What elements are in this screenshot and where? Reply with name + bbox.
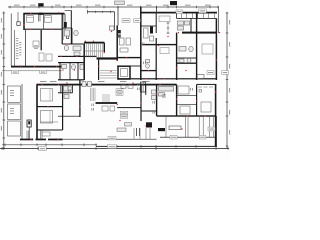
- UR wc fixtures: [146, 60, 150, 69]
- LL bottom window drops: [27, 131, 42, 139]
- right dimension ticks: [226, 13, 229, 147]
- UL bed 2 pillow line: [45, 16, 52, 18]
- UL rotated room text col2: [19, 42, 21, 55]
- bottom dim1 ticks: [5, 144, 97, 147]
- terrace edge y10.5: [65, 9, 72, 12]
- left balcony 1: [8, 86, 21, 102]
- UR wall y66.5 left: [117, 65, 141, 68]
- LR right border x216.5: [215, 116, 218, 146]
- LL thin y116: [58, 115, 80, 118]
- left dimension tiny text: [0, 18, 3, 131]
- UR kitchen small marks: [144, 28, 154, 41]
- UR drop x118: [117, 7, 120, 26]
- UL rotated room text col1: [16, 38, 19, 59]
- UR drop x156: [155, 7, 158, 13]
- UL shaft black blob: [64, 22, 67, 27]
- UR wall x176.5: [176, 33, 177, 80]
- UL living wall x41: [41, 30, 42, 50]
- LL top wall: [37, 84, 118, 86]
- LR label left edge 2: [116, 92, 123, 95]
- LL bath fixtures: [64, 86, 73, 99]
- LR text col x153 b: [153, 111, 156, 114]
- UL left thin wall lower: [24, 30, 27, 66]
- UR kitchen wall x156: [156, 13, 157, 33]
- UR y44.5 red: [158, 45, 159, 46]
- UR dim x168 ticks: [167, 23, 170, 34]
- UR y32.5 red right: [219, 32, 220, 33]
- LR kitchen text: [162, 95, 166, 98]
- UR y70.5 red: [148, 70, 149, 71]
- LR red y120 a: [119, 120, 120, 121]
- corridor door red 3: [83, 58, 84, 59]
- UL top wall red right: [58, 12, 59, 13]
- UR dim x168: [167, 22, 169, 34]
- left edge line x22: [21, 84, 24, 139]
- right dimension tiny text: [228, 20, 231, 135]
- bottom dim label 16.90: [39, 147, 47, 151]
- terrace rail ticks: [181, 13, 215, 18]
- UR kitchen-living wall x191: [191, 18, 192, 32]
- UR column blobs x118: [118, 30, 121, 38]
- right label 1: [207, 71, 214, 75]
- UR kitchen counter: [178, 21, 190, 30]
- LL left wall x37: [36, 85, 38, 140]
- landing treads horizontal: [100, 71, 117, 79]
- UR wall y70.5: [141, 70, 156, 71]
- LL strong wall x80: [79, 80, 80, 117]
- stair mid line: [85, 50, 105, 53]
- LR red x214: [215, 91, 216, 92]
- mid-bottom label box 2: [125, 123, 132, 126]
- UL unit top wall: [24, 13, 65, 15]
- LR text col x153: [153, 101, 156, 104]
- core top wall: [84, 42, 104, 44]
- UR y32.5 red left: [178, 32, 179, 33]
- ML divider x70: [69, 63, 72, 80]
- core west wall lower: [83, 44, 85, 80]
- terrace rail y18.5: [177, 17, 217, 20]
- UL bed 1 pillow line: [27, 16, 34, 18]
- terrace red dot: [111, 31, 112, 32]
- UL interior wall y29: [25, 29, 63, 30]
- UL room divider: [42, 14, 45, 29]
- UR wc text col: [143, 62, 146, 65]
- top black label box: [38, 3, 43, 6]
- core top red 2: [93, 41, 94, 42]
- mid wall pair b: [138, 128, 141, 136]
- LR balcony label 2: [199, 135, 206, 139]
- LL thin line y122: [40, 121, 58, 124]
- top dimension line: [8, 6, 219, 9]
- LL divider x62.5: [62, 85, 63, 130]
- core inner red: [98, 66, 99, 67]
- terrace object: [110, 26, 115, 30]
- UR wall y57.5 left: [117, 57, 141, 58]
- ML fixtures: [62, 64, 84, 69]
- bottom dim3 ticks: [2, 147, 229, 150]
- ML right wall x78: [78, 63, 79, 80]
- LL shower hatch: [91, 88, 96, 101]
- corridor door red 1: [60, 56, 61, 57]
- UL bed 2: [45, 16, 52, 23]
- ML top wall y62.5: [58, 62, 84, 63]
- core east red: [104, 52, 105, 53]
- UL wall x62: [62, 14, 63, 44]
- bathroom fixtures upper: [64, 30, 81, 56]
- UL below-wall dim line: [2, 70, 62, 73]
- bath divider x72 upper: [71, 28, 74, 44]
- LR top wall ext: [117, 84, 177, 86]
- left balcony text: [10, 90, 14, 96]
- LR wall x156.5: [156, 85, 157, 116]
- UR right wall red: [216, 59, 217, 60]
- UL bottom wall red 3: [56, 66, 57, 67]
- balcony rail x11: [10, 14, 13, 67]
- left balcony 2: [8, 104, 21, 120]
- core inner wall x98.5: [98, 60, 99, 80]
- LL bath wall pair x60.8: [60, 85, 62, 93]
- LR wall x176.5: [176, 85, 177, 116]
- LL bath right x72.5: [71, 85, 74, 93]
- UR bath wall y63 right: [177, 63, 197, 64]
- LR thin y95.5: [177, 94, 197, 97]
- UR left wall red: [117, 60, 118, 61]
- UL dim line x63.7: [62, 14, 64, 40]
- UR wall x196.5: [196, 13, 197, 80]
- LR x141 red: [140, 102, 141, 103]
- LL fixtures right of x80: [82, 82, 92, 87]
- LR top red 2: [159, 84, 160, 85]
- shaft box: [17, 22, 20, 26]
- core east wall: [104, 43, 105, 52]
- LL top red 1: [41, 84, 42, 85]
- UR room label 2: [134, 19, 141, 23]
- UR heavy wall y32.5: [182, 32, 217, 34]
- top dimension tiny text: [14, 4, 211, 7]
- LL text col1: [69, 90, 72, 93]
- LR bottom wall y116: [157, 115, 216, 116]
- corridor door red 2: [76, 56, 77, 57]
- LR text col x190: [190, 88, 193, 91]
- UL bottom wall red 2: [34, 66, 35, 67]
- LL lower room marks: [102, 106, 115, 111]
- shaft line x18: [17, 12, 20, 22]
- terrace rail left x176.5: [175, 13, 178, 18]
- UR bath fixtures: [179, 46, 193, 63]
- UR wall y44.5: [142, 44, 177, 45]
- LL bottom wall seg 2: [36, 139, 47, 141]
- UL bottom wall red 1: [20, 65, 21, 66]
- bath door red: [66, 43, 67, 44]
- UL dim label left: [12, 70, 19, 73]
- top dimension ticks: [10, 6, 219, 9]
- LR red x118: [117, 104, 118, 105]
- UL window line right: [87, 10, 115, 13]
- LR label left edge: [116, 89, 123, 92]
- UR room text col: [142, 43, 145, 46]
- UR left wall x117: [116, 26, 118, 62]
- LL x80 red: [79, 106, 80, 107]
- UR bottom red 1: [145, 78, 146, 79]
- LR thin y104.5: [177, 103, 197, 106]
- LR fixtures col x152: [152, 90, 157, 100]
- UL left wall door: [23, 24, 24, 25]
- UR room fixtures x118-138: [120, 38, 131, 52]
- UL window subdivision ticks: [87, 10, 110, 14]
- elevator shaft: [118, 66, 130, 79]
- UR bath wall y58 right: [177, 57, 197, 60]
- LR wall x145.8: [144, 85, 147, 95]
- LL bed 1 pillow: [49, 89, 51, 101]
- LL top red 4: [90, 82, 91, 83]
- UR x176.5 red: [176, 67, 177, 68]
- LR red x196: [196, 100, 197, 101]
- UL bed 1: [27, 16, 34, 23]
- LR balcony red: [181, 128, 182, 129]
- UR small wall y26: [141, 25, 156, 28]
- LR text col x137 b: [137, 88, 140, 91]
- stair treads lower flight: [87, 52, 103, 58]
- LL corridor furniture: [42, 132, 50, 136]
- LR top wall windows right: [197, 84, 217, 85]
- core landing red: [110, 71, 111, 72]
- LL rooms bottom y130: [37, 130, 63, 131]
- mid label y138: [108, 137, 116, 140]
- UL shaft black blob 2: [66, 30, 68, 34]
- LL y106.5 red: [47, 106, 48, 107]
- LR wall x196.5: [196, 85, 197, 116]
- top-right gray label box: [115, 1, 125, 5]
- LR red x158: [156, 93, 157, 94]
- LL above-wall tiny text: [40, 80, 105, 83]
- bath upper top y28: [62, 27, 72, 30]
- LR wall x141: [140, 85, 141, 121]
- bottom dim label mid: [108, 145, 117, 149]
- LR hatch box: [141, 82, 146, 92]
- LR corridor label 2: [120, 115, 128, 118]
- LR balcony verticals: [166, 117, 213, 137]
- mid-bottom black marks: [146, 122, 152, 127]
- bottom dim2 ticks: [117, 145, 217, 148]
- LR right wall x215.5: [215, 85, 217, 147]
- left dimension line: [2, 12, 5, 151]
- LL bottom red 2: [57, 139, 58, 140]
- LL bath bottom y92.8: [58, 92, 73, 93]
- UR red x168: [167, 36, 168, 37]
- LL text col3: [92, 108, 95, 111]
- LL bed 2 pillow: [49, 111, 51, 123]
- small shaft blob: [28, 121, 30, 124]
- LL bed 2: [41, 111, 53, 124]
- LL heavy wall y103: [96, 102, 118, 104]
- LR balcony rail y137.2: [160, 136, 216, 139]
- UR bath red: [185, 70, 186, 71]
- corridor wall y56.5: [58, 56, 97, 57]
- UL living bottom wall: [11, 66, 63, 68]
- LR hatch lines: [142, 83, 144, 92]
- UR unit bottom wall: [117, 78, 216, 79]
- balcony inner x14.5: [13, 30, 16, 66]
- LL top red 3: [66, 82, 67, 83]
- UR y57.5 red: [126, 57, 127, 58]
- plan right edge x218.5: [217, 7, 220, 33]
- LR balcony label 1: [170, 135, 177, 139]
- UR label box 2: [199, 9, 207, 13]
- UR right wall x216.5: [216, 18, 218, 80]
- UR small box y74 right: [197, 75, 204, 80]
- LR wall y111: [141, 111, 157, 112]
- right small box y128: [158, 128, 165, 131]
- UL top wall door mark: [30, 13, 31, 14]
- LR above-wall tiny text: [120, 80, 150, 83]
- core top red 1: [85, 41, 86, 42]
- LL wall y106.5: [37, 106, 63, 107]
- core dark wall y58.5: [97, 57, 118, 59]
- LR top shelf row: [198, 86, 213, 89]
- LR top red 1: [132, 82, 133, 83]
- LR y116 red 1: [187, 115, 188, 116]
- bottom dimension line 3: [0, 147, 229, 150]
- mid-bottom thin verticals: [134, 128, 150, 139]
- UL interior door 1: [30, 29, 31, 30]
- UR living marks: [159, 16, 213, 54]
- right dimension line: [226, 12, 229, 148]
- right label 3: [208, 127, 215, 131]
- mid-bottom label box: [117, 128, 126, 131]
- ML red 1: [62, 69, 63, 70]
- top-right black box: [170, 1, 177, 5]
- UR room label 1: [122, 19, 130, 23]
- LL bed 1: [41, 89, 53, 102]
- LL corridor thin line: [63, 138, 157, 141]
- core west wall upper: [71, 11, 72, 45]
- ML bottom wall y79.6: [58, 79, 84, 80]
- UR top wall: [141, 12, 217, 14]
- shaft drop line: [28, 127, 31, 139]
- UR label box 1: [176, 10, 183, 13]
- ML red 2: [74, 69, 75, 70]
- UL living small text: [34, 46, 38, 49]
- LL bottom wall seg 1: [20, 139, 33, 141]
- left dimension ticks: [3, 13, 6, 149]
- UR kitchen wall x156 lower: [156, 38, 157, 80]
- UL top wall pilaster: [39, 13, 43, 15]
- small shaft symbol: [27, 120, 31, 127]
- UL shaft wall x65: [64, 14, 67, 30]
- LL bottom wall seg 3: [48, 139, 63, 141]
- UR kitchen dark blob: [150, 27, 153, 34]
- UL living furniture: [33, 41, 52, 61]
- UL interior door 2: [51, 29, 52, 30]
- left balcony 3: [8, 121, 21, 136]
- UR bottom red 2: [164, 78, 165, 79]
- LR kitchen counter: [159, 87, 174, 97]
- LR y116 red 2: [204, 115, 205, 116]
- LR bed room 1: [178, 86, 211, 114]
- LL bottom red 1: [30, 139, 31, 140]
- LL top red 2: [58, 84, 59, 85]
- UL wardrobe double line: [38, 14, 40, 21]
- terrace right edge x114.5: [113, 12, 116, 30]
- elevator inner box: [121, 69, 128, 77]
- UL left exterior wall: [23, 13, 25, 30]
- LL light rect: [102, 94, 110, 102]
- UR top red 2: [203, 12, 204, 13]
- LR balcony box left: [169, 126, 181, 130]
- LR red x176: [176, 98, 177, 99]
- UL dim label right: [40, 70, 47, 73]
- LR text col x137: [137, 83, 140, 86]
- mid wall pair a: [135, 128, 138, 136]
- stair treads upper flight: [87, 44, 103, 51]
- bottom dimension line 2 right: [96, 146, 217, 147]
- left balcony text 2: [10, 108, 14, 114]
- right label 2: [222, 71, 229, 75]
- LR wall y107.5: [117, 107, 141, 108]
- LR small boxes top: [121, 85, 133, 88]
- ML left wall x60: [60, 63, 61, 80]
- bath wall y44: [62, 44, 84, 45]
- UL shaft box 3: [66, 35, 68, 39]
- bottom dimension line 1: [2, 144, 97, 147]
- LR corridor label 1: [120, 111, 128, 114]
- UR main wall x140.5: [140, 7, 142, 80]
- UR top red 1: [156, 12, 157, 13]
- LL text col2: [92, 104, 95, 107]
- LR red y126 b: [145, 125, 146, 126]
